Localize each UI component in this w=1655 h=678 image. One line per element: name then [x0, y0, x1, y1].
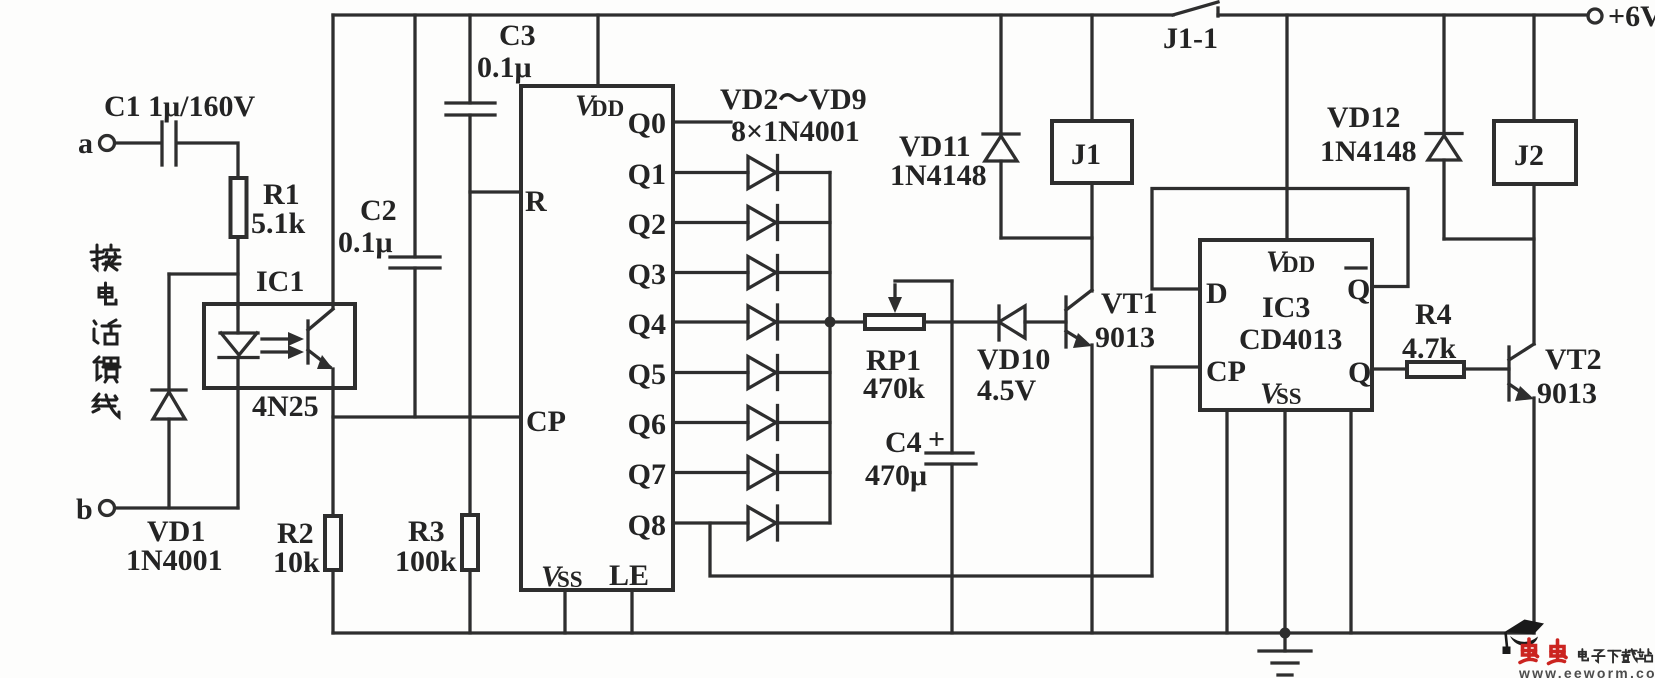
resistor RP1 470k potentiometer [865, 315, 924, 329]
capacitor C1 1u/160V [160, 122, 163, 165]
svg-text:b: b [76, 493, 93, 526]
transistor opto phototransistor [306, 321, 309, 363]
wire rail drop to J2 [1532, 15, 1535, 121]
resistor R2 10k [325, 516, 341, 570]
wire wiper to C4 node [950, 281, 953, 453]
wire CP net from opto emitter to counter CP pin [333, 415, 521, 418]
transistor VT1 9013 [1064, 297, 1067, 347]
wire Q8 branch down [710, 523, 1152, 576]
wire rail drop to VD11 [999, 15, 1002, 134]
svg-text:Q8: Q8 [628, 509, 666, 542]
wire D to Qbar feedback loop [1152, 189, 1408, 290]
wire VD1 top lead [167, 274, 170, 390]
svg-text:VT2: VT2 [1545, 343, 1602, 376]
wire Q2 lead [673, 221, 748, 224]
svg-text:Q: Q [1348, 356, 1371, 389]
wire VDD stub of counter IC [596, 15, 599, 86]
wire top supply rail right segment [1218, 13, 1588, 16]
watermark logo cap [1505, 620, 1545, 635]
svg-text:Q1: Q1 [628, 158, 666, 191]
svg-text:Q0: Q0 [628, 107, 666, 140]
svg-text:SS: SS [1276, 384, 1302, 409]
wire rail drop to VD12 [1442, 15, 1445, 134]
svg-text:Q7: Q7 [628, 458, 666, 491]
op-amp IC2 counter box [521, 86, 673, 590]
svg-text:1N4148: 1N4148 [890, 159, 987, 192]
svg-text:9013: 9013 [1537, 377, 1597, 410]
svg-text:VD12: VD12 [1327, 101, 1400, 134]
wire Q3 lead [673, 271, 748, 274]
wire CP stub [1152, 365, 1200, 368]
svg-text:VD10: VD10 [977, 343, 1050, 376]
wire R4 to VT2 base [1464, 367, 1509, 370]
ground symbol [1280, 628, 1291, 639]
wire rail drop to optocoupler collector [331, 15, 334, 308]
watermark site name CJK [1579, 649, 1652, 663]
svg-text:www.eeworm.com: www.eeworm.com [1518, 665, 1655, 678]
wire R2 bottom lead to ground rail [331, 570, 334, 633]
diode opto LED [236, 304, 239, 333]
svg-text:Q3: Q3 [628, 258, 666, 291]
svg-text:CD4013: CD4013 [1239, 323, 1342, 356]
svg-text:100k: 100k [395, 545, 457, 578]
svg-text:470μ: 470μ [865, 459, 927, 492]
wire RP1 wiper arm [893, 285, 896, 303]
wire LE stub to ground [630, 590, 633, 633]
svg-text:DD: DD [1282, 252, 1315, 277]
wire VSS stub to ground [563, 590, 566, 633]
svg-text:10k: 10k [273, 546, 320, 579]
svg-text:4.7k: 4.7k [1402, 332, 1457, 365]
resistor R1 5.1k [231, 178, 247, 237]
svg-text:J1: J1 [1071, 138, 1101, 171]
capacitor C3 0.1u [446, 101, 495, 104]
svg-text:CP: CP [1206, 355, 1246, 388]
svg-text:C2: C2 [360, 194, 397, 227]
svg-text:4N25: 4N25 [252, 390, 319, 423]
wire Q0 stub [673, 120, 731, 123]
svg-text:1N4001: 1N4001 [126, 544, 223, 577]
transistor VT2 9013 [1507, 347, 1510, 400]
wire opto emitter down through R2 node [331, 388, 334, 516]
capacitor C2 0.1u [390, 255, 440, 258]
diode VD5 [748, 306, 776, 338]
svg-text:0.1μ: 0.1μ [338, 226, 393, 259]
wire VD12 anode to VT2 collector net [1444, 237, 1534, 240]
wire VT2 collector to J2 [1532, 184, 1535, 344]
node label: connect telephone feed line (vertical CJK) [91, 245, 120, 417]
svg-text:9013: 9013 [1095, 321, 1155, 354]
watermark chongchong red [1520, 639, 1566, 664]
op-amp IC3 CD4013 box [1200, 240, 1372, 410]
svg-text:C3: C3 [499, 19, 536, 52]
wire diode OR bus [828, 173, 831, 524]
wire Q5 lead [673, 371, 748, 374]
wire ground bottom rail [333, 631, 1534, 634]
svg-text:C4: C4 [885, 426, 922, 459]
wire C3 top lead [468, 15, 471, 103]
op-amp IC1 4N25 optocoupler box [204, 304, 355, 388]
wire VD11 anode to VT1 collector net [1001, 236, 1092, 239]
wire Q7 lead [673, 471, 748, 474]
svg-text:Q5: Q5 [628, 358, 666, 391]
capacitor C4 470u electrolytic [926, 451, 973, 454]
switch J1-1 [1173, 2, 1218, 15]
wire VT1 collector to J1 [1090, 183, 1093, 291]
svg-text:R4: R4 [1415, 298, 1452, 331]
wire rail drop to IC3 VDD [1285, 15, 1288, 240]
node +6V terminal [1588, 9, 1602, 23]
diode VD7 [748, 407, 776, 439]
wire C2 top lead [413, 15, 416, 257]
diode VD2 [748, 157, 776, 189]
svg-text:IC3: IC3 [1262, 291, 1310, 324]
svg-text:R3: R3 [408, 515, 445, 548]
wire C3 bottom lead / R3 top lead [468, 115, 471, 515]
diode VD3 [748, 207, 776, 239]
wire IC3 bottom stub 1 [1225, 410, 1228, 633]
diode VD10 4.5V [997, 306, 1000, 340]
svg-text:1N4148: 1N4148 [1320, 135, 1417, 168]
diode VD1 1N4001 [152, 388, 186, 391]
svg-text:IC1: IC1 [256, 265, 304, 298]
svg-text:0.1μ: 0.1μ [477, 51, 532, 84]
wire VT1 emitter to ground rail [1090, 345, 1093, 633]
resistor R3 100k [462, 515, 478, 570]
diode VD11 1N4148 [983, 132, 1019, 135]
wire R1 bottom to opto LED anode [236, 237, 239, 308]
wire C1 to R1 top [179, 143, 238, 178]
svg-text:C1 1μ/160V: C1 1μ/160V [104, 90, 256, 123]
wire C4 bottom lead to ground rail [950, 464, 953, 633]
diode VD12 1N4148 [1426, 132, 1462, 135]
wire opto light arrows [262, 337, 292, 340]
wire rail drop to J1 [1090, 15, 1093, 121]
relay J2 box [1494, 121, 1576, 184]
wire IC3 VSS stub to ground [1283, 410, 1286, 633]
svg-text:5.1k: 5.1k [251, 207, 306, 240]
svg-text:a: a [78, 127, 93, 160]
svg-text:SS: SS [557, 567, 583, 592]
wire VD1 cathode link to LED anode node [169, 272, 238, 275]
svg-text:+: + [928, 423, 945, 456]
svg-text:4.5V: 4.5V [977, 374, 1037, 407]
svg-text:+6V: +6V [1608, 0, 1655, 33]
svg-text:DD: DD [591, 96, 624, 121]
svg-text:Q2: Q2 [628, 208, 666, 241]
svg-text:VD2～VD9: VD2～VD9 [720, 83, 867, 116]
svg-text:Q4: Q4 [628, 308, 666, 341]
node a input terminal [100, 136, 115, 151]
relay J1 box [1052, 121, 1132, 183]
wire b terminal to opto LED cathode [115, 506, 238, 509]
svg-text:D: D [1206, 277, 1228, 310]
svg-text:LE: LE [609, 559, 649, 592]
svg-text:J2: J2 [1514, 139, 1544, 172]
svg-text:Q: Q [1347, 273, 1370, 306]
wire Q8 lead [673, 521, 748, 524]
svg-text:Q6: Q6 [628, 408, 666, 441]
diode VD6 [748, 357, 776, 389]
wire riser to CP of IC3 [1150, 367, 1153, 576]
wire R3 bottom lead to ground rail [468, 570, 471, 633]
wire Q4 lead [673, 320, 748, 323]
svg-text:470k: 470k [863, 372, 925, 405]
wire top supply rail left segment [333, 13, 1173, 16]
wire Q output to R4 [1372, 367, 1407, 370]
wire Q1 lead [673, 171, 748, 174]
wire R reset stub [470, 190, 521, 193]
svg-text:R: R [525, 185, 547, 218]
diode VD4 [748, 257, 776, 289]
diode VD8 [748, 457, 776, 489]
wire C2 bottom lead to CP net [413, 268, 416, 417]
diode VD9 [748, 507, 776, 539]
wire VT2 emitter to ground rail [1532, 398, 1535, 633]
node bus to RP1 junction [825, 317, 836, 328]
wire opto LED cathode down [236, 388, 239, 508]
resistor R4 4.7k [1407, 362, 1464, 377]
svg-text:VT1: VT1 [1101, 287, 1158, 320]
svg-text:8×1N4001: 8×1N4001 [731, 115, 860, 148]
svg-text:J1-1: J1-1 [1163, 22, 1218, 55]
wire IC3 bottom stub 2 [1349, 410, 1352, 633]
wire VD1 bottom lead [167, 419, 170, 508]
wire Q6 lead [673, 421, 748, 424]
node b input terminal [100, 501, 115, 516]
svg-text:CP: CP [526, 405, 566, 438]
wire a terminal to C1 [115, 141, 159, 144]
